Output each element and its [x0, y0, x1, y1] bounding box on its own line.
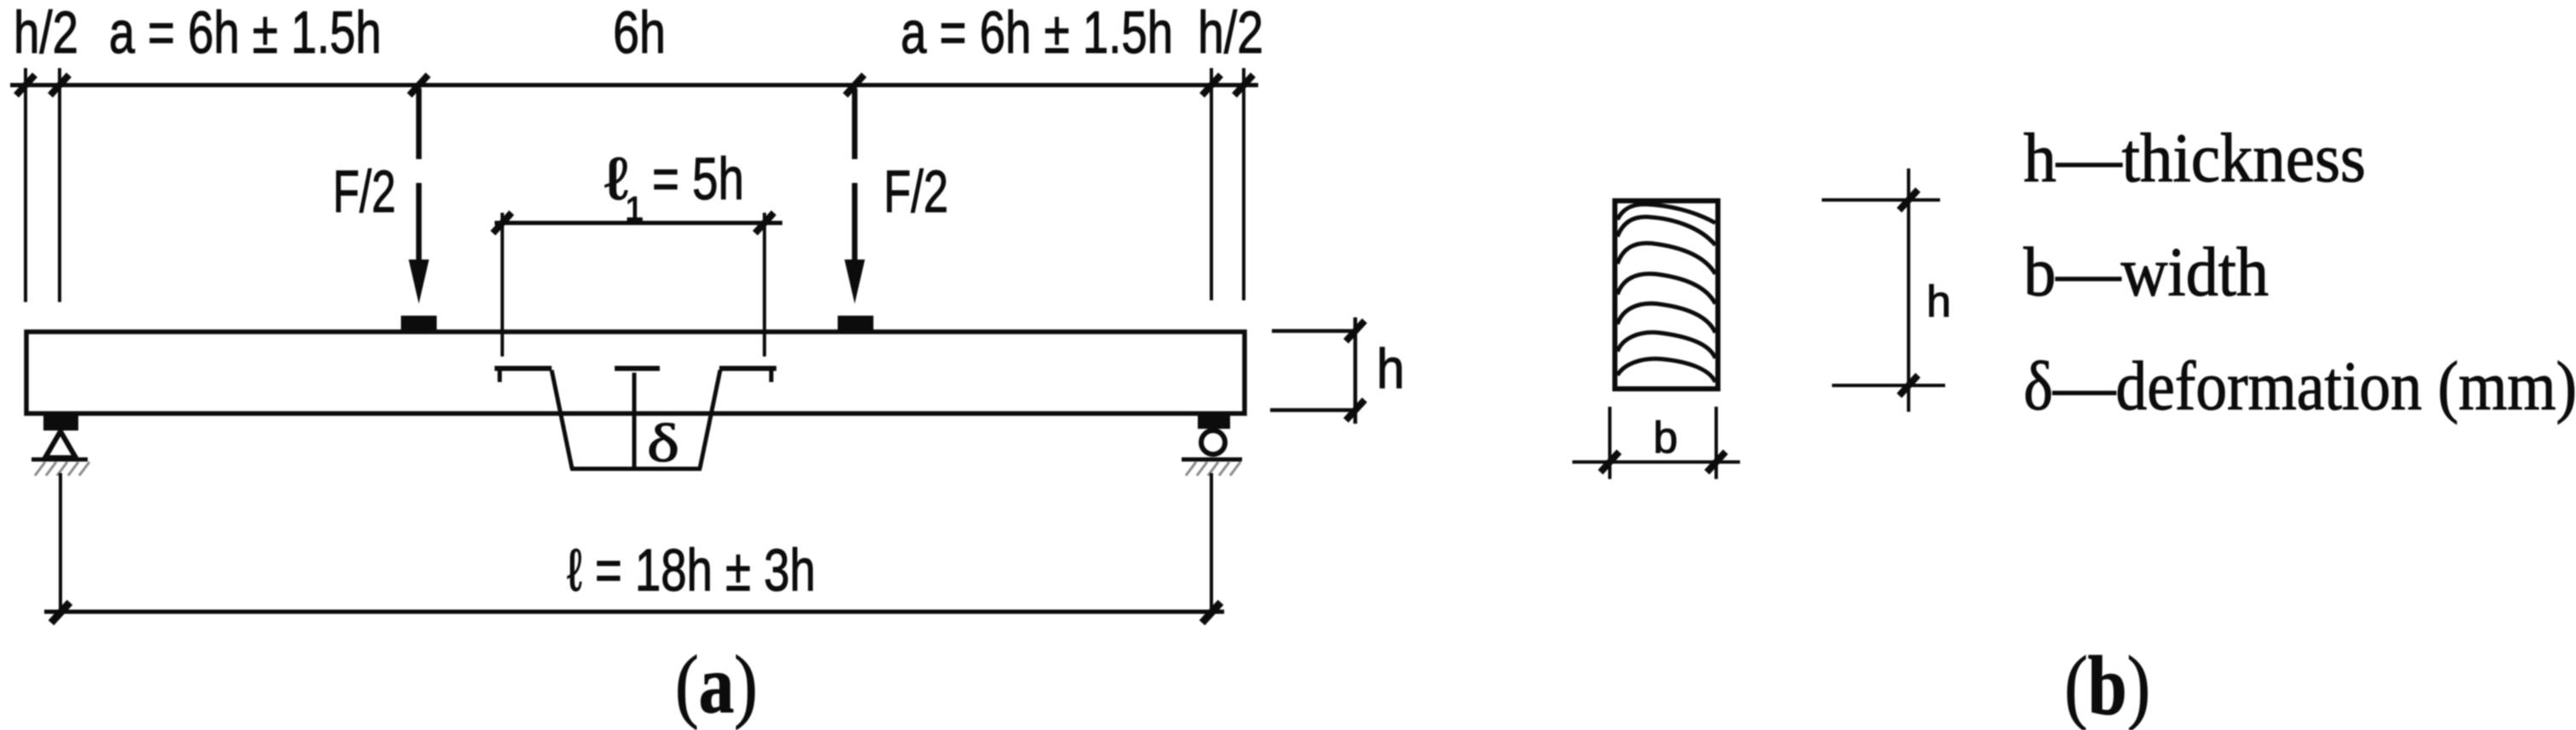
- svg-text:b—width: b—width: [2024, 233, 2269, 311]
- b tick right: [1707, 452, 1726, 472]
- top dimension line: [10, 83, 1258, 88]
- svg-text:h/2: h/2: [14, 0, 78, 66]
- extension line right support: [1210, 68, 1213, 300]
- svg-text:F/2: F/2: [884, 158, 948, 225]
- left support pin triangle: [45, 431, 76, 458]
- svg-text:ℓ = 18h ± 3h: ℓ = 18h ± 3h: [567, 537, 816, 603]
- left support hatching: [35, 462, 89, 476]
- deflectometer plunger: [633, 373, 637, 469]
- deflectometer right slant: [700, 370, 720, 469]
- left support plate: [43, 413, 78, 431]
- section h tick bottom: [1899, 375, 1918, 396]
- tick top-3: [409, 75, 428, 95]
- svg-text:b: b: [1653, 413, 1678, 463]
- svg-text:a = 6h ± 1.5h: a = 6h ± 1.5h: [109, 0, 381, 66]
- growth rings: [1617, 204, 1715, 382]
- tick top-6: [1234, 75, 1253, 95]
- svg-text:F/2: F/2: [333, 158, 396, 225]
- deflectometer left bar: [495, 366, 552, 371]
- extension line left support: [58, 68, 61, 302]
- svg-text:a = 6h ± 1.5h: a = 6h ± 1.5h: [901, 0, 1173, 66]
- bottom dimension line: [44, 610, 1224, 614]
- tick top-4: [845, 75, 864, 95]
- left support ground: [31, 458, 88, 462]
- right support dropper: [1210, 473, 1213, 612]
- svg-text:(a): (a): [675, 639, 758, 730]
- section rectangle: [1615, 201, 1718, 389]
- b dimension: [1608, 407, 1611, 479]
- extension line left edge: [24, 68, 27, 302]
- load arrow F/2 right: [852, 88, 858, 159]
- deflectometer bottom: [570, 467, 701, 471]
- l1 tick left: [493, 213, 512, 233]
- bottom tick left: [51, 602, 70, 623]
- l1 dimension line: [495, 221, 782, 225]
- tick top-5: [1202, 75, 1221, 95]
- svg-text:δ: δ: [647, 413, 679, 473]
- deflectometer left slant: [552, 370, 572, 469]
- tick top-1: [16, 75, 35, 95]
- svg-text:h/2: h/2: [1198, 0, 1263, 66]
- tick top-2: [50, 75, 69, 95]
- svg-text:= 5h: = 5h: [652, 145, 744, 212]
- section h dimension: [1907, 168, 1910, 412]
- load pad right: [838, 316, 873, 332]
- svg-text:h: h: [1926, 277, 1951, 327]
- bottom tick right: [1202, 602, 1221, 623]
- beam height tick top: [1346, 321, 1365, 341]
- svg-text:(b): (b): [2064, 640, 2150, 730]
- right support ground: [1182, 458, 1242, 462]
- b tick left: [1600, 452, 1619, 472]
- svg-text:δ—deformation (mm): δ—deformation (mm): [2024, 347, 2576, 425]
- right support hatching: [1186, 462, 1240, 476]
- extension line right edge: [1242, 68, 1245, 300]
- svg-text:h—thickness: h—thickness: [2024, 119, 2366, 197]
- svg-text:h: h: [1377, 337, 1405, 400]
- section h tick top: [1899, 190, 1918, 210]
- l1 extension left: [501, 213, 504, 356]
- l1 extension right: [763, 213, 766, 356]
- load arrow F/2 left: [416, 88, 422, 159]
- svg-text:6h: 6h: [613, 0, 666, 66]
- deflectometer centre bar: [615, 366, 660, 371]
- deflectometer right bar: [719, 366, 776, 371]
- l1 tick right: [755, 213, 774, 233]
- beam outline: [26, 332, 1245, 413]
- load pad left: [401, 316, 437, 332]
- right support roller: [1201, 431, 1225, 454]
- left support dropper: [59, 473, 62, 612]
- beam height dimension: [1272, 329, 1352, 334]
- right support plate: [1198, 414, 1230, 429]
- beam height tick bottom: [1346, 400, 1365, 420]
- svg-text:1: 1: [625, 191, 644, 228]
